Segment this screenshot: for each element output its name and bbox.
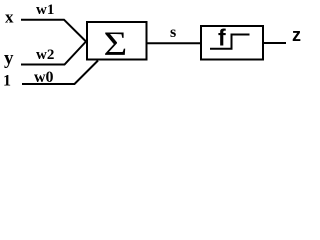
svg-text:s: s [170,24,176,41]
svg-text:y: y [4,48,14,69]
wire s [147,42,201,44]
svg-text:x: x [5,8,14,27]
svg-text:w1: w1 [36,2,54,18]
svg-text:z: z [292,25,301,45]
svg-text:w2: w2 [36,47,54,63]
svg-text:1: 1 [3,73,11,90]
wire z [263,42,286,44]
wire x to summer [21,20,86,42]
wire y to summer [21,42,86,65]
step function icon [210,35,250,49]
svg-text:f: f [218,25,226,51]
threshold box U2 [201,26,263,60]
wire bias to summer [22,61,98,85]
svg-text:Σ: Σ [104,25,128,62]
summation box U1 [87,22,147,60]
